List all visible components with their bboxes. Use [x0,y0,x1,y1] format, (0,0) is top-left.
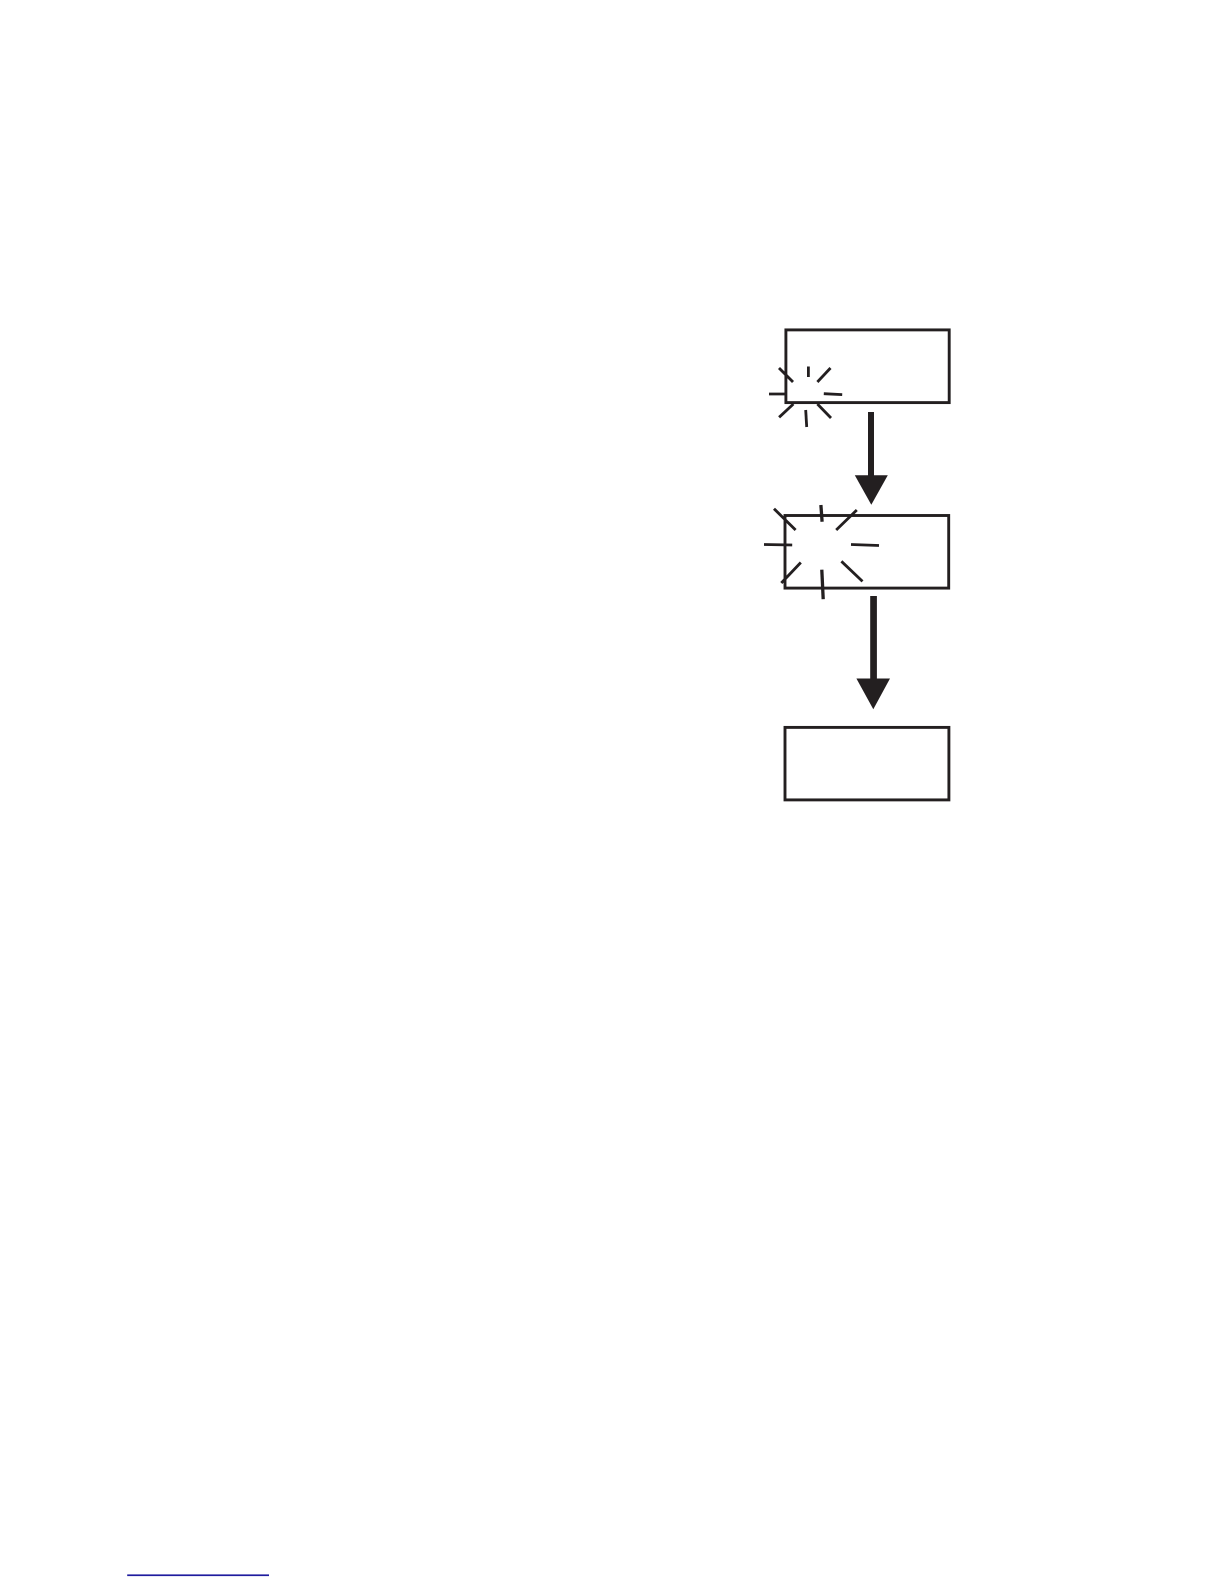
box 3 (bottom flowchart box) [785,727,949,800]
footer link underline (blue rule, bottom-left) [127,1574,269,1576]
flash symbol 1 (impact starburst at lower-left corner of box 1) [769,367,842,428]
arrow 1 (from box 1 to box 2) [855,412,888,505]
box 1 (top flowchart box) [786,330,949,403]
box 2 (middle flowchart box) [785,516,949,589]
flash symbol 2 (large impact starburst at upper-left of box 2) [764,505,879,599]
arrow 2 (from box 2 to box 3) [856,596,890,709]
